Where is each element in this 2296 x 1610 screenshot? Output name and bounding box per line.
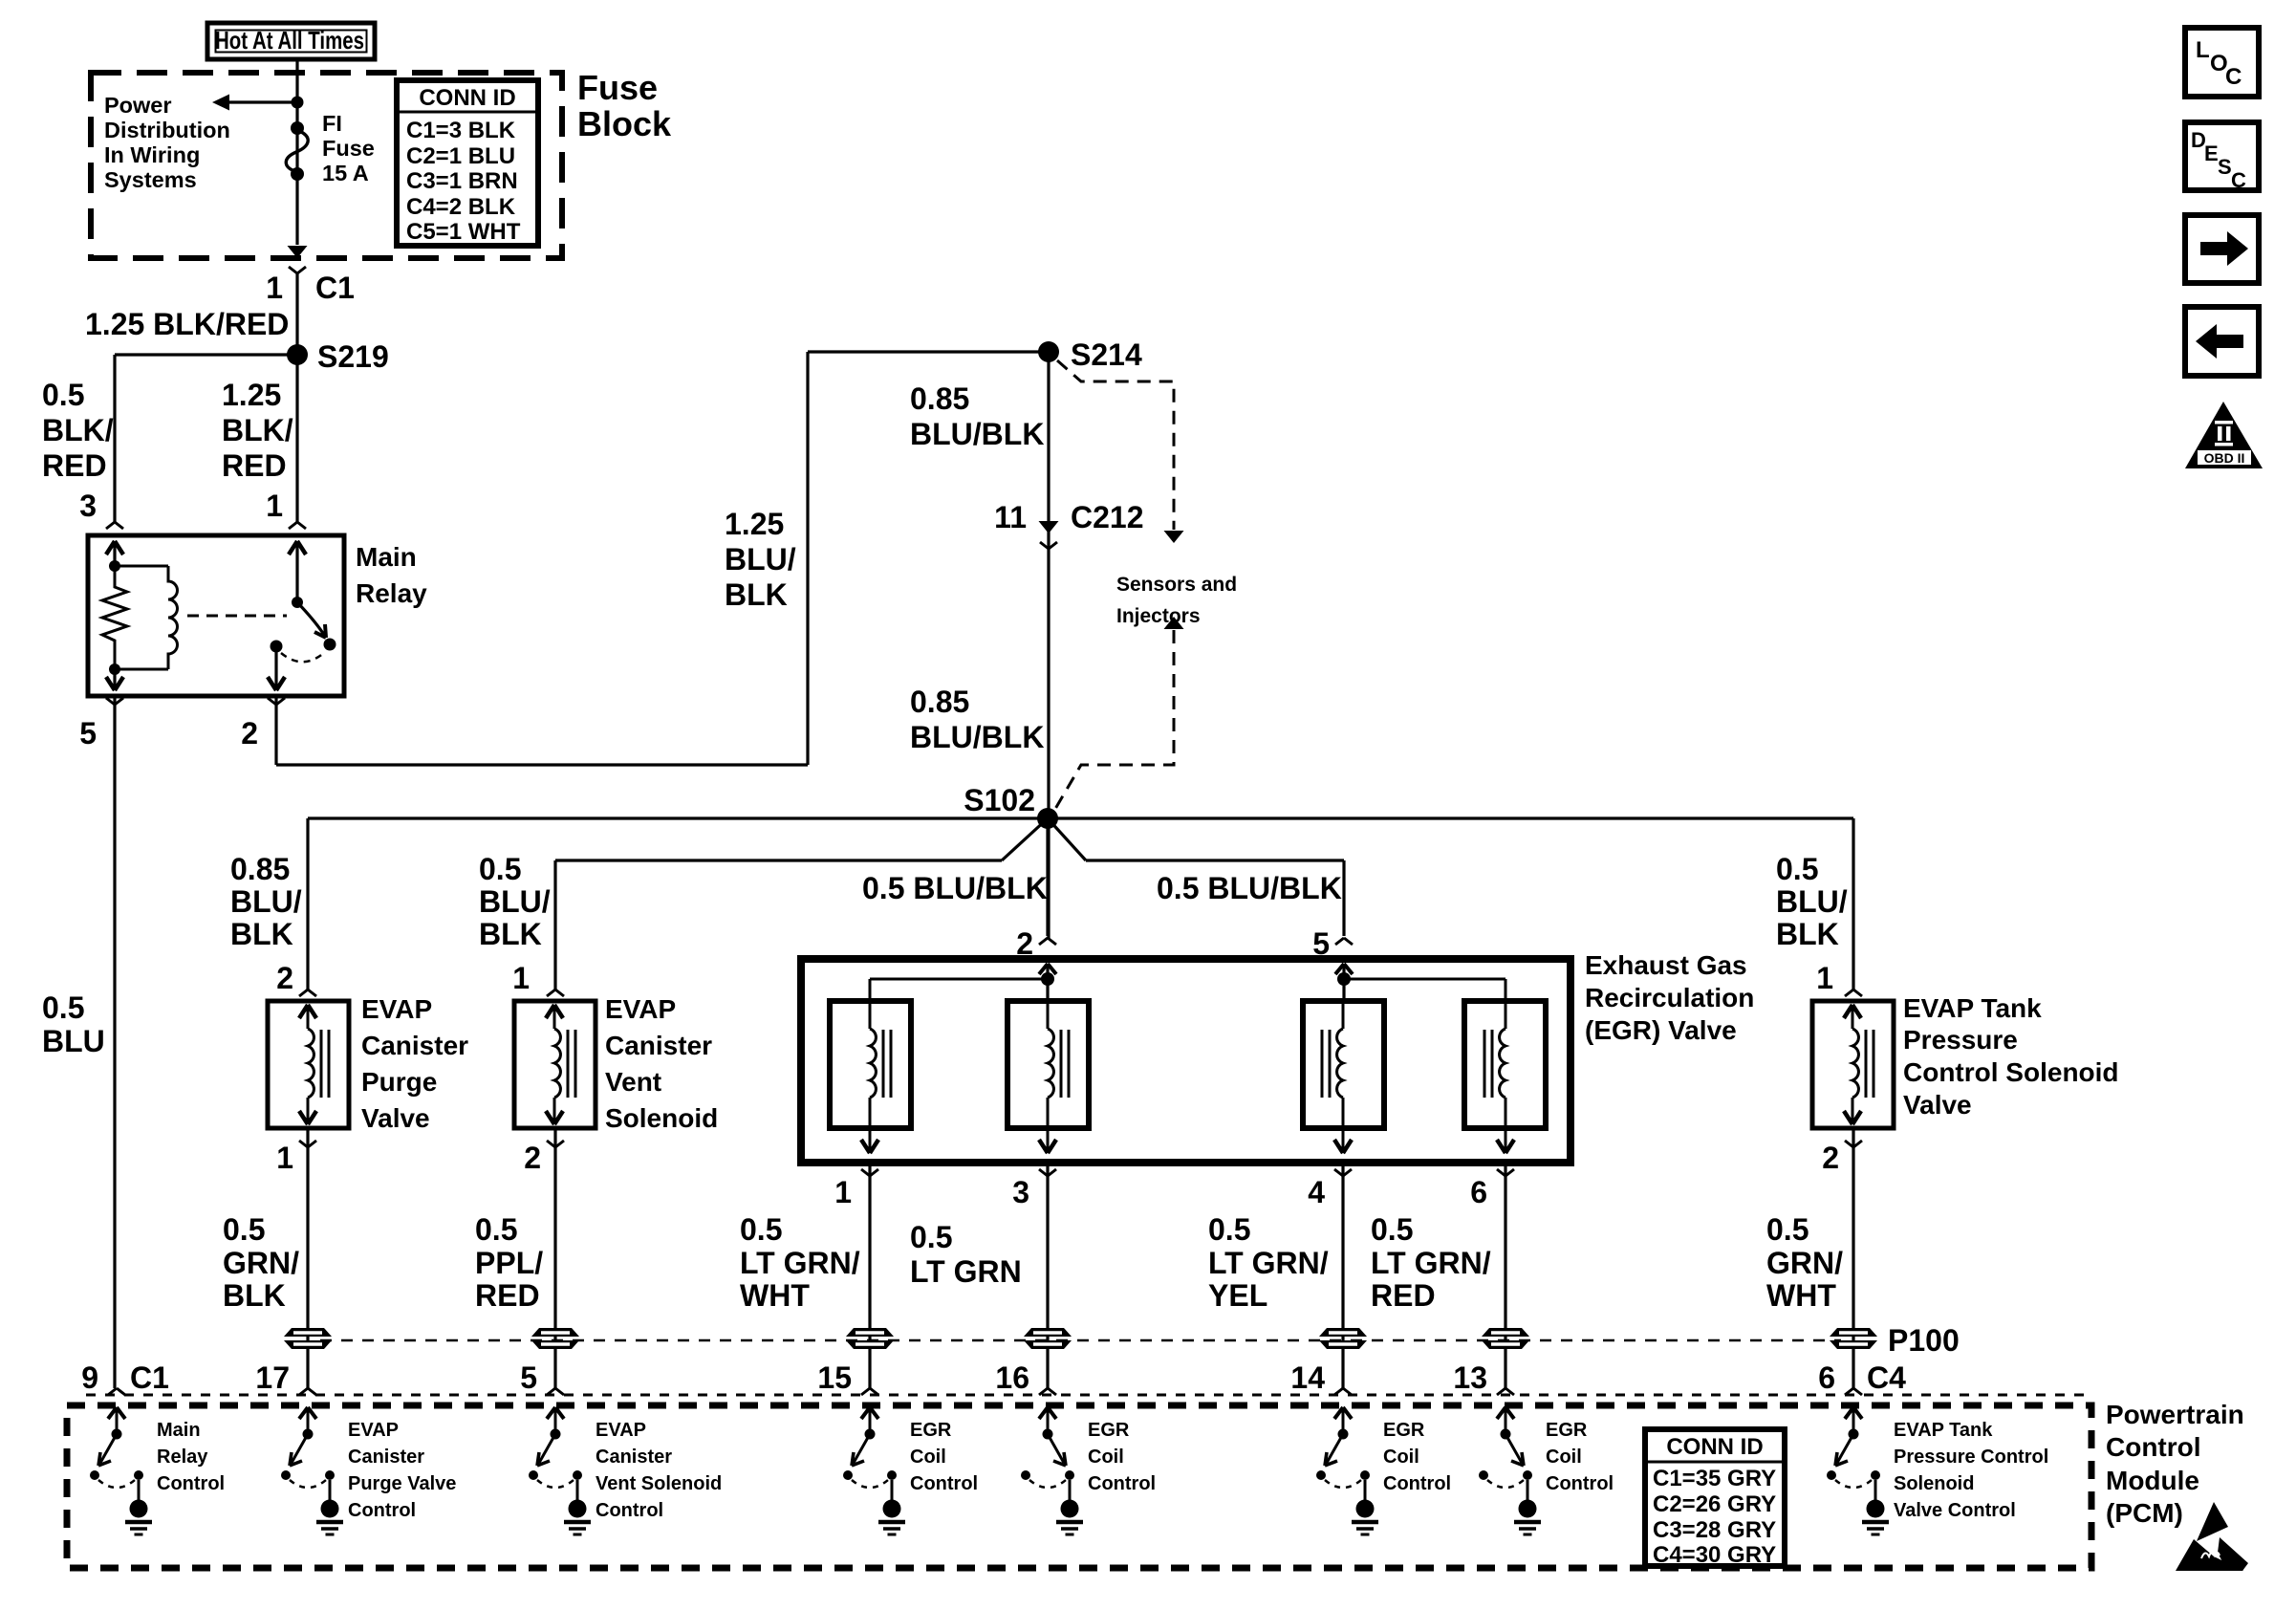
relay coil input arrow pin 3 — [106, 541, 123, 566]
wire: 0.5 PPL/RED vent to PCM 5 — [553, 1128, 556, 1388]
svg-text:5: 5 — [79, 716, 97, 751]
svg-text:C1: C1 — [130, 1360, 169, 1395]
svg-text:0.5: 0.5 — [740, 1212, 782, 1247]
svg-text:C2=26 GRY: C2=26 GRY — [1653, 1491, 1776, 1517]
svg-text:Control: Control — [157, 1473, 225, 1494]
purge valve pin 2 terminal — [276, 961, 316, 996]
svg-text:2: 2 — [241, 716, 258, 751]
PCM driver: EGR coil control 14 — [1316, 1407, 1378, 1534]
wire label: 0.85 BLU/BLK (purge) — [230, 852, 302, 951]
relay interior junction dot bottom — [109, 664, 120, 675]
wire: 0.85 BLU/BLK S214 to S102 — [1047, 352, 1050, 940]
wire: 0.5 LT GRN/WHT EGR 1 to PCM 15 — [868, 1163, 871, 1388]
svg-text:CONN ID: CONN ID — [1666, 1434, 1763, 1460]
svg-text:S214: S214 — [1071, 337, 1142, 372]
wire label: 0.5 GRN/WHT — [1766, 1212, 1843, 1313]
svg-text:Coil: Coil — [910, 1447, 946, 1468]
legend icon: forward arrow box — [2185, 215, 2259, 283]
EVAP canister vent solenoid box — [514, 1001, 596, 1128]
svg-text:0.5 BLU/BLK: 0.5 BLU/BLK — [1157, 871, 1342, 905]
connector C1 pin 1 (fuse block output) — [266, 246, 355, 305]
svg-text:2: 2 — [276, 961, 293, 995]
vent solenoid coil — [546, 1005, 575, 1124]
dashed reference: S214 to sensors and injectors — [1057, 360, 1184, 543]
svg-text:1: 1 — [834, 1175, 852, 1209]
wire: 0.5 BLK/RED branch S219 to relay pin 3 — [115, 355, 297, 522]
relay interior junction dot top — [109, 560, 120, 572]
PCM driver: EVAP canister vent solenoid control — [529, 1407, 591, 1534]
wire: S102 right diagonal to EGR pin 5 branch — [1048, 818, 1344, 860]
svg-text:EVAP: EVAP — [605, 994, 676, 1024]
svg-text:0.5: 0.5 — [1766, 1212, 1809, 1247]
svg-text:11: 11 — [994, 500, 1027, 534]
svg-text:Canister: Canister — [361, 1031, 468, 1060]
P100 connector at EGR4 wire — [1319, 1328, 1367, 1349]
svg-text:LT GRN/: LT GRN/ — [1208, 1246, 1329, 1280]
P100 connector at purge wire — [284, 1328, 332, 1349]
power feed label box: Hot At All Times — [207, 23, 375, 59]
relay switch arm — [297, 602, 336, 651]
wire label: 0.5 LT GRN/RED — [1371, 1212, 1491, 1313]
PCM dashed outline — [67, 1405, 2091, 1568]
svg-text:0.5: 0.5 — [223, 1212, 265, 1247]
wire: 0.5 BLU/BLK drop to tank valve — [1852, 818, 1854, 990]
wire label: 1.25 BLK/RED — [85, 307, 289, 341]
PCM pin 6 terminal — [1818, 1360, 1906, 1395]
svg-text:Coil: Coil — [1088, 1447, 1124, 1468]
svg-text:EGR: EGR — [1088, 1420, 1130, 1441]
svg-text:C3=28 GRY: C3=28 GRY — [1653, 1517, 1776, 1543]
PCM driver label: EGR coil control 16 — [1088, 1420, 1156, 1494]
svg-text:P100: P100 — [1888, 1323, 1960, 1358]
wire: 0.5 BLU relay pin 5 to PCM pin 9 — [113, 696, 116, 1388]
fuse block dashed outline — [91, 73, 562, 258]
EGR pin 1 terminal — [834, 1169, 878, 1209]
wire label: 0.5 BLU/BLK (EGR pin 5) — [1157, 871, 1342, 905]
PCM pin 5 terminal — [520, 1360, 564, 1395]
svg-text:LT GRN/: LT GRN/ — [740, 1246, 860, 1280]
tank valve pin 1 terminal — [1816, 961, 1862, 996]
svg-text:RED: RED — [475, 1278, 540, 1313]
PCM connector face dashed line — [86, 1394, 2090, 1397]
PCM pin 15 terminal — [817, 1360, 878, 1395]
wire: 1.25 BLK/RED from C1 to S219 — [295, 273, 298, 355]
EGR coil 4 — [1484, 1001, 1514, 1153]
PCM driver label: EVAP canister vent solenoid control — [596, 1420, 722, 1521]
relay pin 5 terminal — [79, 698, 123, 751]
relay switch input arrow pin 1 — [289, 541, 306, 602]
EGR coil 1 — [861, 1001, 891, 1153]
svg-text:0.5 BLU/BLK: 0.5 BLU/BLK — [862, 871, 1048, 905]
svg-text:E: E — [2204, 141, 2219, 165]
svg-text:Sensors and: Sensors and — [1116, 574, 1237, 596]
relay switch throw dashed arc — [281, 652, 325, 662]
svg-text:Purge Valve: Purge Valve — [348, 1473, 456, 1494]
svg-text:1.25 BLK/RED: 1.25 BLK/RED — [85, 307, 289, 341]
EGR interior wire to coil 4 — [1344, 979, 1505, 1001]
svg-text:17: 17 — [255, 1360, 290, 1395]
svg-text:Control: Control — [910, 1473, 978, 1494]
svg-text:C4: C4 — [1867, 1360, 1906, 1395]
svg-text:BLU/: BLU/ — [725, 542, 796, 577]
label: EVAP Tank Pressure Control Solenoid Valve — [1903, 993, 2119, 1120]
label: FI Fuse 15 A — [322, 111, 375, 185]
svg-text:RED: RED — [42, 448, 107, 483]
legend icon: back arrow box — [2185, 307, 2259, 376]
svg-text:PPL/: PPL/ — [475, 1246, 543, 1280]
EGR coil 4 box — [1464, 1001, 1546, 1128]
P100 connector at vent wire — [531, 1328, 579, 1349]
svg-text:Canister: Canister — [348, 1447, 424, 1468]
connector C212 pin 11 — [994, 500, 1143, 549]
label: Sensors and Injectors — [1116, 574, 1237, 627]
EGR pin 5 terminal — [1312, 926, 1353, 961]
P100 connector at EGR6 wire — [1482, 1328, 1529, 1349]
wire: 0.5 BLU/BLK drop to EGR pin 2 — [1046, 818, 1049, 936]
svg-text:EVAP: EVAP — [348, 1420, 399, 1441]
svg-text:GRN/: GRN/ — [1766, 1246, 1843, 1280]
wire: 0.85 BLU/BLK drop to purge valve — [306, 818, 309, 990]
svg-text:(PCM): (PCM) — [2106, 1498, 2183, 1528]
svg-text:Recirculation: Recirculation — [1585, 983, 1754, 1012]
svg-text:Valve: Valve — [361, 1103, 430, 1133]
PCM driver label: EVAP canister purge valve control — [348, 1420, 456, 1521]
svg-text:13: 13 — [1453, 1360, 1487, 1395]
svg-text:0.5: 0.5 — [1776, 852, 1818, 886]
wire: 0.5 LT GRN/RED EGR 6 to PCM 13 — [1504, 1163, 1506, 1388]
svg-text:BLU/BLK: BLU/BLK — [910, 720, 1044, 754]
svg-text:EGR: EGR — [1546, 1420, 1588, 1441]
svg-text:C5=1 WHT: C5=1 WHT — [406, 219, 521, 245]
wire label: 0.85 BLU/BLK (lower) — [910, 685, 1044, 754]
svg-text:0.5: 0.5 — [1208, 1212, 1250, 1247]
wire label: 0.5 BLK/RED — [42, 378, 114, 483]
svg-text:6: 6 — [1818, 1360, 1835, 1395]
svg-text:Canister: Canister — [605, 1031, 712, 1060]
wire: 0.5 GRN/BLK purge to PCM 17 — [306, 1128, 309, 1388]
svg-text:0.85: 0.85 — [230, 852, 290, 886]
svg-text:Pressure Control: Pressure Control — [1894, 1447, 2048, 1468]
svg-text:15: 15 — [817, 1360, 852, 1395]
splice S214 — [1038, 337, 1142, 372]
wire label: 0.5 BLU — [42, 990, 105, 1058]
svg-text:C: C — [2231, 168, 2246, 192]
wire label: 0.5 LT GRN — [910, 1220, 1022, 1289]
EGR interior junction dot right — [1337, 972, 1351, 986]
svg-text:Control: Control — [1383, 1473, 1451, 1494]
svg-text:3: 3 — [1012, 1175, 1029, 1209]
EGR valve outer box — [801, 959, 1570, 1163]
relay resistor — [102, 566, 127, 669]
svg-text:S102: S102 — [964, 783, 1035, 817]
PCM CONN ID table — [1645, 1429, 1785, 1568]
wire: 0.5 LT GRN EGR 3 to PCM 16 — [1046, 1163, 1049, 1388]
dashed reference: S102 to sensors and injectors — [1055, 617, 1184, 809]
svg-text:Fuse: Fuse — [577, 68, 658, 107]
EVAP tank pressure control solenoid valve box — [1812, 1001, 1894, 1128]
svg-text:RED: RED — [222, 448, 287, 483]
PCM driver label: EGR coil control 14 — [1383, 1420, 1451, 1494]
PCM driver: EGR coil control 15 — [843, 1407, 905, 1534]
wire: 0.5 GRN/WHT tank to PCM 6 — [1852, 1128, 1854, 1388]
legend icon: OBD II triangle — [2185, 402, 2263, 468]
svg-text:1.25: 1.25 — [222, 378, 281, 412]
svg-text:EGR: EGR — [910, 1420, 952, 1441]
svg-text:0.85: 0.85 — [910, 381, 969, 416]
relay switch output arrow pin 2 — [268, 646, 285, 690]
label: Power Distribution In Wiring Systems — [104, 93, 230, 192]
wire label: 0.5 BLU/BLK (tank) — [1776, 852, 1848, 951]
wire: 0.5 BLU/BLK drop to vent solenoid — [553, 860, 556, 990]
svg-text:Powertrain: Powertrain — [2106, 1400, 2244, 1429]
svg-text:1: 1 — [266, 271, 283, 305]
svg-text:EVAP: EVAP — [361, 994, 432, 1024]
svg-text:EVAP Tank: EVAP Tank — [1894, 1420, 1993, 1441]
svg-text:BLK: BLK — [1776, 917, 1839, 951]
PCM pin 14 terminal — [1290, 1360, 1352, 1395]
wire label: 0.5 PPL/RED — [475, 1212, 543, 1313]
EGR pin 4 terminal — [1308, 1169, 1352, 1209]
svg-text:BLK: BLK — [725, 577, 788, 612]
PCM pin 9 terminal — [81, 1360, 169, 1395]
svg-text:4: 4 — [1308, 1175, 1325, 1209]
label: Powertrain Control Module (PCM) — [2106, 1400, 2244, 1528]
svg-text:2: 2 — [524, 1141, 541, 1175]
EGR interior arrow pin 5 — [1335, 964, 1353, 1001]
harness connector P100 dashed line — [320, 1339, 1841, 1342]
label: EVAP Canister Purge Valve — [361, 994, 468, 1133]
svg-text:C1=3 BLK: C1=3 BLK — [406, 118, 516, 143]
svg-text:(EGR) Valve: (EGR) Valve — [1585, 1015, 1737, 1045]
svg-text:5: 5 — [520, 1360, 537, 1395]
PCM driver: EVAP canister purge valve control — [281, 1407, 343, 1534]
svg-text:Main: Main — [356, 542, 417, 572]
tank valve coil — [1844, 1005, 1874, 1124]
wire label: 0.5 BLU/BLK (EGR pin 2) — [862, 871, 1048, 905]
svg-text:WHT: WHT — [740, 1278, 810, 1313]
svg-text:Block: Block — [577, 104, 672, 143]
svg-text:Control Solenoid: Control Solenoid — [1903, 1057, 2119, 1087]
svg-text:EVAP Tank: EVAP Tank — [1903, 993, 2042, 1023]
EGR pin 2 terminal — [1016, 926, 1056, 961]
svg-text:15 A: 15 A — [322, 161, 369, 185]
vent solenoid pin 1 terminal — [512, 961, 564, 996]
P100 connector at EGR3 wire — [1024, 1328, 1072, 1349]
svg-text:Coil: Coil — [1546, 1447, 1582, 1468]
P100 connector at tank wire — [1830, 1328, 1877, 1349]
svg-text:EVAP: EVAP — [596, 1420, 646, 1441]
svg-text:0.5: 0.5 — [475, 1212, 517, 1247]
svg-text:3: 3 — [79, 489, 97, 523]
svg-text:YEL: YEL — [1208, 1278, 1267, 1313]
svg-text:1: 1 — [512, 961, 530, 995]
svg-text:BLK: BLK — [479, 917, 542, 951]
svg-text:BLU/: BLU/ — [230, 884, 302, 919]
fuse FI Fuse 15 A element — [286, 121, 308, 181]
svg-text:S219: S219 — [317, 339, 389, 374]
PCM driver label: EGR coil control 15 — [910, 1420, 978, 1494]
svg-text:0.85: 0.85 — [910, 685, 969, 719]
EGR pin 3 terminal — [1012, 1169, 1056, 1209]
legend icon: DESC box — [2185, 122, 2259, 192]
svg-text:0.5: 0.5 — [479, 852, 521, 886]
svg-text:C4=2 BLK: C4=2 BLK — [406, 194, 516, 220]
PCM driver label: EVAP tank pressure control solenoid valve control — [1894, 1420, 2048, 1521]
wire label: 0.85 BLU/BLK (upper) — [910, 381, 1044, 451]
vent solenoid pin 2 terminal — [524, 1141, 564, 1175]
wire: 1.25 BLK/RED S219 to relay pin 1 — [295, 355, 298, 522]
svg-text:Control: Control — [1546, 1473, 1614, 1494]
EVAP canister purge valve box — [268, 1001, 349, 1128]
relay coil output arrow pin 5 — [106, 669, 123, 690]
wire label: 0.5 LT GRN/WHT — [740, 1212, 860, 1313]
svg-text:Power: Power — [104, 93, 172, 118]
svg-text:0.5: 0.5 — [42, 990, 84, 1025]
label: P100 — [1888, 1323, 1960, 1358]
legend icon: LOC box — [2185, 28, 2259, 97]
svg-text:FI: FI — [322, 111, 342, 136]
svg-text:Control: Control — [2106, 1432, 2201, 1462]
svg-text:CONN ID: CONN ID — [419, 85, 515, 111]
svg-text:BLK: BLK — [230, 917, 293, 951]
svg-text:BLK/: BLK/ — [222, 413, 293, 447]
PCM driver: EGR coil control 13 — [1479, 1407, 1541, 1534]
EGR coil 1 box — [830, 1001, 911, 1128]
splice S219 — [287, 339, 389, 374]
ESD sensitivity symbol — [2176, 1502, 2248, 1571]
P100 connector at EGR1 wire — [846, 1328, 894, 1349]
svg-text:1.25: 1.25 — [725, 507, 784, 541]
svg-text:Fuse: Fuse — [322, 136, 375, 161]
svg-text:0.5: 0.5 — [1371, 1212, 1413, 1247]
svg-text:EGR: EGR — [1383, 1420, 1425, 1441]
svg-text:16: 16 — [995, 1360, 1029, 1395]
relay common contact dot — [271, 641, 283, 653]
svg-text:Vent Solenoid: Vent Solenoid — [596, 1473, 722, 1494]
svg-text:Hot At All Times: Hot At All Times — [215, 26, 364, 54]
EGR interior wire to coil 1 — [870, 979, 1048, 1001]
PCM driver: EGR coil control 16 — [1021, 1407, 1083, 1534]
PCM driver: main relay control — [90, 1407, 152, 1534]
svg-text:Distribution: Distribution — [104, 118, 230, 142]
wire: battery feed vertical into fuse block — [295, 59, 298, 245]
svg-text:C2=1 BLU: C2=1 BLU — [406, 143, 515, 169]
purge valve pin 1 terminal — [276, 1141, 316, 1175]
svg-text:Coil: Coil — [1383, 1447, 1419, 1468]
wire: 0.5 BLU/BLK drop to EGR pin 5 — [1342, 860, 1345, 936]
label: Main Relay — [356, 542, 427, 608]
svg-text:GRN/: GRN/ — [223, 1246, 299, 1280]
svg-text:S: S — [2218, 155, 2232, 179]
PCM driver: EVAP tank pressure control solenoid valve control — [1827, 1407, 1889, 1534]
PCM pin 17 terminal — [255, 1360, 316, 1395]
relay pin 3 terminal — [79, 489, 123, 529]
relay coil branch — [115, 566, 178, 669]
svg-text:1: 1 — [1816, 961, 1833, 995]
EGR coil 2 — [1039, 1001, 1069, 1153]
wire label: 0.5 LT GRN/YEL — [1208, 1212, 1329, 1313]
svg-text:WHT: WHT — [1766, 1278, 1836, 1313]
svg-text:Systems: Systems — [104, 167, 197, 192]
wire: 0.5 LT GRN/YEL EGR 4 to PCM 14 — [1341, 1163, 1344, 1388]
svg-text:LT GRN: LT GRN — [910, 1254, 1022, 1289]
svg-text:C212: C212 — [1071, 500, 1144, 534]
relay pin 1 terminal — [266, 489, 306, 529]
relay switch pivot dot — [292, 597, 303, 608]
svg-text:Control: Control — [1088, 1473, 1156, 1494]
PCM pin 13 terminal — [1453, 1360, 1514, 1395]
svg-text:BLU/BLK: BLU/BLK — [910, 417, 1044, 451]
svg-text:Module: Module — [2106, 1466, 2199, 1495]
wire: 1.25 BLU/BLK relay pin 2 to S214 — [276, 352, 1049, 765]
EGR pin 6 terminal — [1470, 1169, 1514, 1209]
relay mechanical link dashed — [187, 615, 287, 618]
svg-text:BLK: BLK — [223, 1278, 286, 1313]
svg-text:Vent: Vent — [605, 1067, 661, 1097]
svg-text:Relay: Relay — [356, 578, 427, 608]
wire: S102 main rail — [308, 816, 1853, 819]
svg-text:0.5: 0.5 — [42, 378, 84, 412]
svg-text:Exhaust Gas: Exhaust Gas — [1585, 950, 1747, 980]
EGR interior junction dot left — [1041, 972, 1054, 986]
svg-text:L: L — [2196, 37, 2210, 63]
svg-text:0.5: 0.5 — [910, 1220, 952, 1254]
svg-text:LT GRN/: LT GRN/ — [1371, 1246, 1491, 1280]
svg-text:BLK/: BLK/ — [42, 413, 114, 447]
PCM driver label: EGR coil control 13 — [1546, 1420, 1614, 1494]
fuse block CONN ID table — [397, 80, 538, 246]
svg-text:Purge: Purge — [361, 1067, 437, 1097]
svg-text:Valve Control: Valve Control — [1894, 1500, 2016, 1521]
svg-text:Control: Control — [596, 1500, 663, 1521]
svg-text:Solenoid: Solenoid — [1894, 1473, 1974, 1494]
svg-text:C3=1 BRN: C3=1 BRN — [406, 168, 518, 194]
EGR interior arrow pin 2 — [1039, 964, 1056, 1001]
PCM pin 16 terminal — [995, 1360, 1056, 1395]
svg-text:C1=35 GRY: C1=35 GRY — [1653, 1466, 1776, 1491]
svg-text:BLU/: BLU/ — [479, 884, 551, 919]
fuse block label: Fuse Block — [577, 68, 672, 143]
svg-text:Pressure: Pressure — [1903, 1025, 2018, 1055]
purge valve coil — [299, 1005, 329, 1124]
svg-text:In Wiring: In Wiring — [104, 142, 200, 167]
splice S102 — [964, 783, 1058, 829]
svg-text:Main: Main — [157, 1420, 201, 1441]
svg-text:1: 1 — [276, 1141, 293, 1175]
EGR coil 3 — [1322, 1001, 1352, 1153]
svg-text:OBD II: OBD II — [2204, 450, 2245, 466]
svg-text:Control: Control — [348, 1500, 416, 1521]
svg-text:C: C — [2225, 64, 2242, 90]
wire label: 1.25 BLK/RED (to relay) — [222, 378, 293, 483]
EGR coil 3 box — [1303, 1001, 1384, 1128]
svg-text:14: 14 — [1290, 1360, 1325, 1395]
svg-text:9: 9 — [81, 1360, 98, 1395]
svg-text:RED: RED — [1371, 1278, 1436, 1313]
label: EVAP Canister Vent Solenoid — [605, 994, 718, 1133]
svg-text:6: 6 — [1470, 1175, 1487, 1209]
PCM driver label: main relay control — [157, 1420, 225, 1494]
svg-text:BLU: BLU — [42, 1024, 105, 1058]
power distribution takeoff arrow — [212, 95, 304, 111]
svg-text:Injectors: Injectors — [1116, 605, 1201, 627]
svg-text:C1: C1 — [315, 271, 355, 305]
svg-text:C4=30 GRY: C4=30 GRY — [1653, 1542, 1776, 1568]
wire label: 0.5 BLU/BLK (vent) — [479, 852, 551, 951]
relay pin 2 terminal — [241, 698, 285, 751]
wire: S102 left diagonal to vent branch — [555, 818, 1048, 860]
svg-text:Solenoid: Solenoid — [605, 1103, 718, 1133]
